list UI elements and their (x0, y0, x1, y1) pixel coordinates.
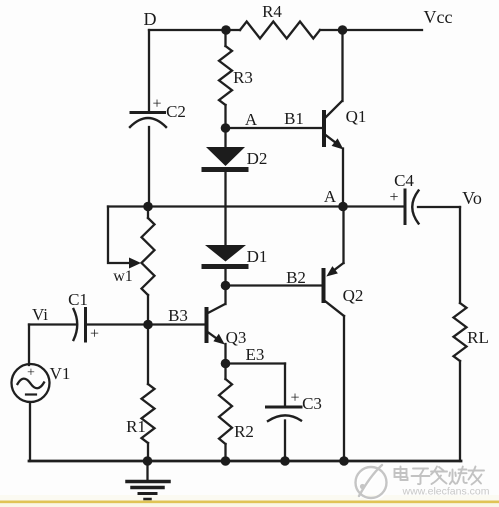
svg-text:Q2: Q2 (343, 286, 364, 305)
svg-text:B2: B2 (286, 268, 306, 287)
svg-text:+: + (90, 326, 99, 343)
svg-text:V1: V1 (50, 364, 71, 383)
svg-text:E3: E3 (246, 345, 265, 364)
svg-text:C3: C3 (302, 394, 322, 413)
svg-text:www.elecfans.com: www.elecfans.com (402, 486, 490, 498)
svg-text:D2: D2 (247, 149, 268, 168)
svg-text:B3: B3 (168, 306, 188, 325)
svg-text:+: + (27, 366, 35, 381)
svg-text:C1: C1 (68, 290, 88, 309)
svg-text:RL: RL (467, 328, 489, 347)
svg-text:A: A (245, 110, 258, 129)
svg-text:B1: B1 (284, 109, 304, 128)
svg-text:+: + (290, 390, 299, 407)
svg-text:Vcc: Vcc (424, 7, 453, 27)
svg-text:D1: D1 (247, 247, 268, 266)
svg-text:Q3: Q3 (226, 328, 247, 347)
svg-text:w1: w1 (113, 268, 133, 285)
svg-text:R4: R4 (262, 2, 282, 21)
svg-text:A: A (324, 187, 337, 206)
svg-text:R1: R1 (126, 417, 146, 436)
svg-text:C2: C2 (166, 102, 186, 121)
svg-text:+: + (389, 189, 398, 206)
svg-text:Vo: Vo (462, 188, 482, 208)
svg-text:C4: C4 (394, 171, 414, 190)
svg-text:R3: R3 (233, 68, 253, 87)
svg-text:Q1: Q1 (346, 107, 367, 126)
svg-text:Vi: Vi (32, 305, 48, 324)
svg-text:+: + (152, 96, 161, 113)
svg-text:R2: R2 (234, 422, 254, 441)
svg-text:D: D (144, 9, 157, 29)
